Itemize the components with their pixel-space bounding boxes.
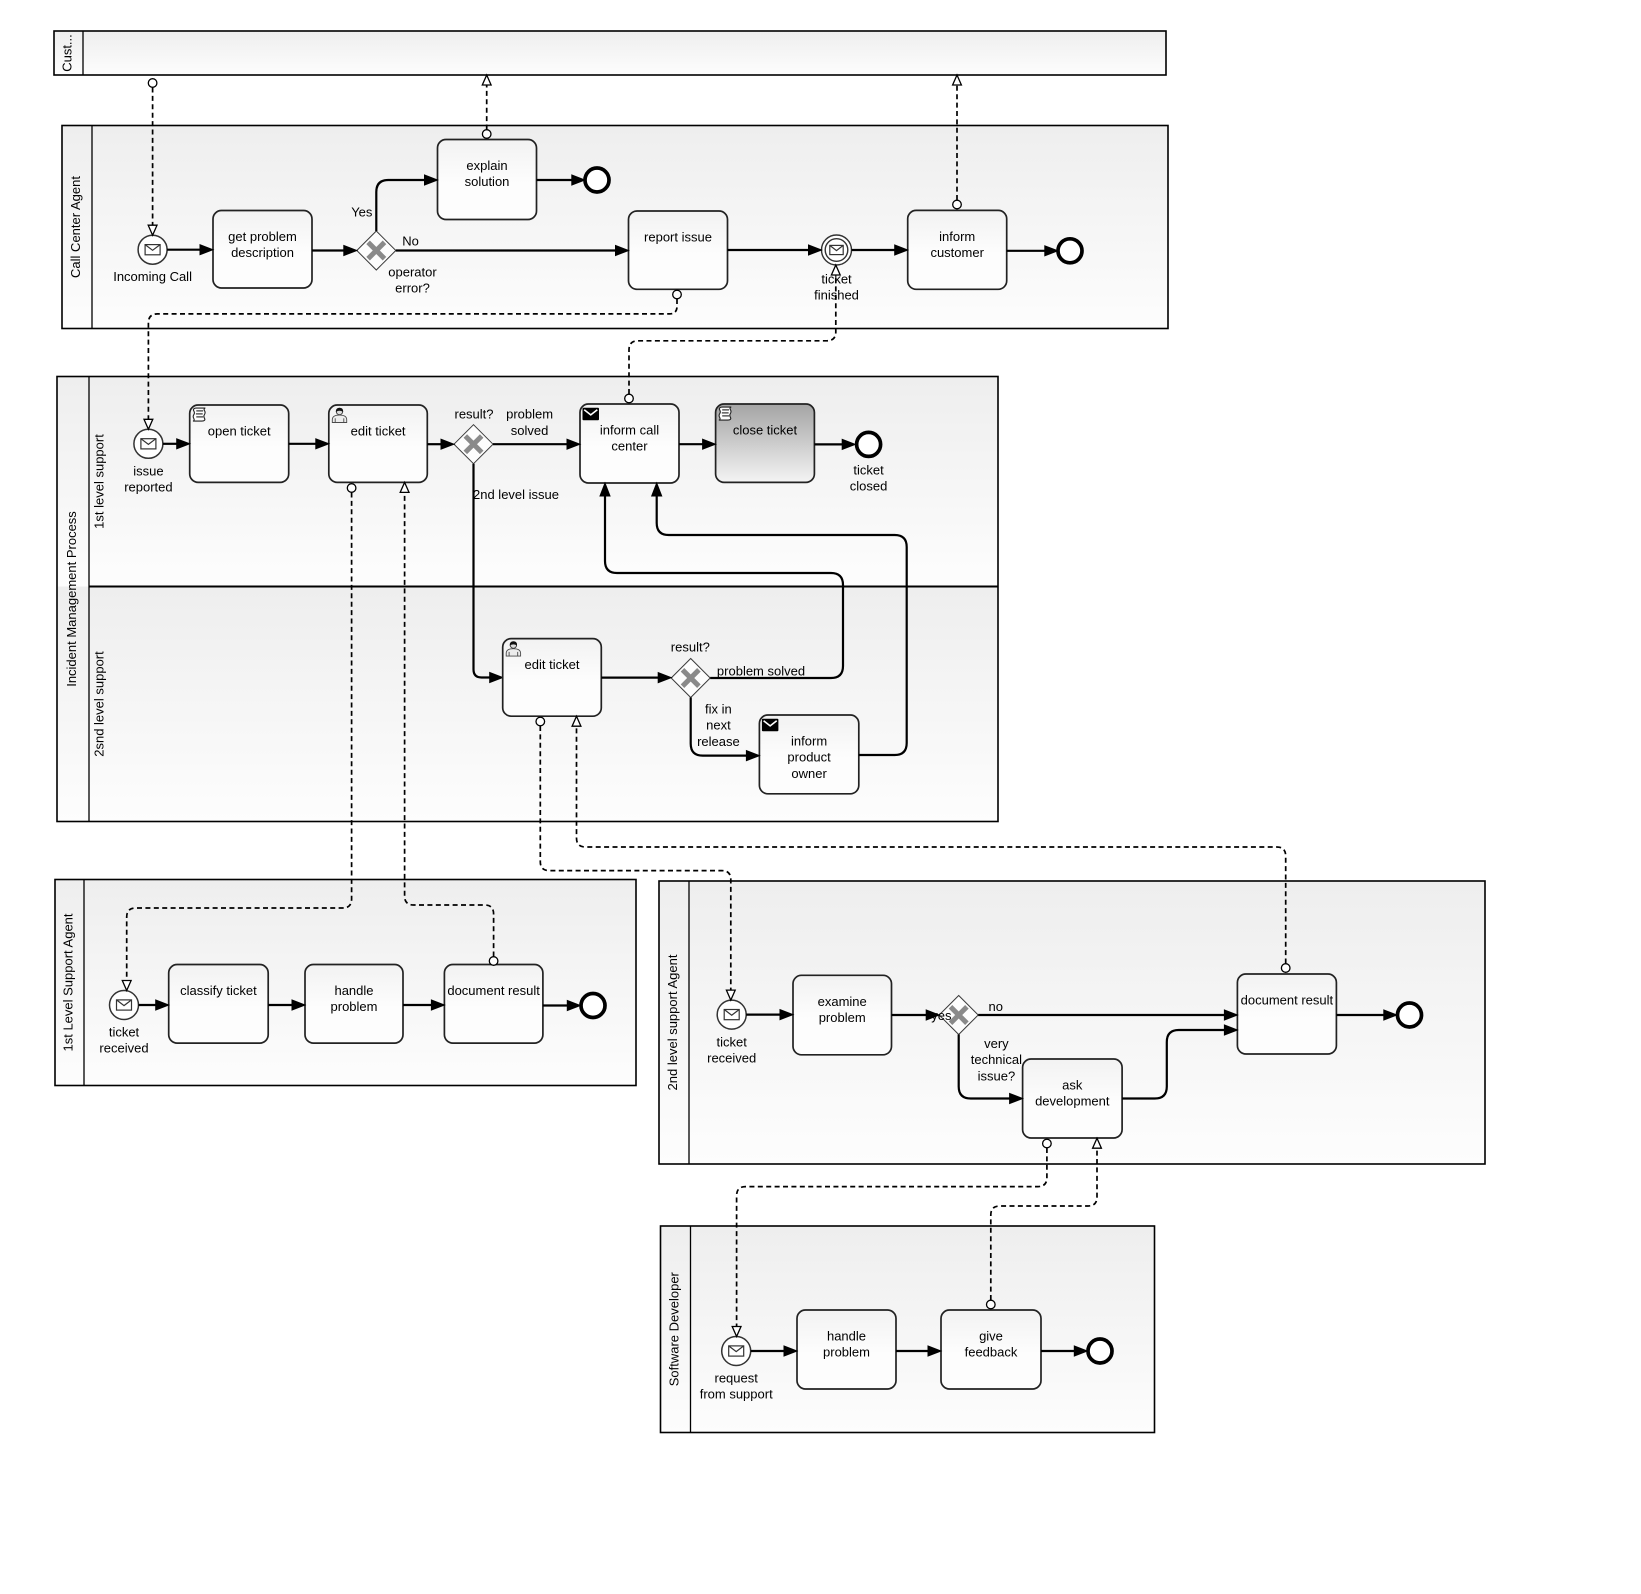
- svg-text:document result: document result: [447, 983, 540, 998]
- task handle problem developer: [797, 1310, 896, 1389]
- svg-text:Software Developer: Software Developer: [666, 1271, 681, 1386]
- start event request from support: [700, 1337, 773, 1402]
- svg-text:inform: inform: [791, 734, 827, 749]
- start event Incoming Call: [113, 235, 192, 284]
- pool Call Center Agent: [62, 126, 1168, 329]
- gateway operator error?: [357, 231, 396, 270]
- task ask development: [1023, 1059, 1123, 1138]
- flow edit ticket to gateway result?: [427, 439, 454, 449]
- end event 1st agent: [581, 994, 605, 1018]
- flow document result to end 1st agent: [543, 1001, 580, 1011]
- svg-text:result?: result?: [671, 640, 710, 655]
- svg-text:yes: yes: [931, 1008, 952, 1023]
- svg-text:ticket: ticket: [109, 1025, 140, 1040]
- task handle problem 1st agent: [305, 965, 403, 1044]
- message flow document result 2nd to edit ticket 2nd: [572, 716, 1290, 972]
- flow gateway Yes to explain solution: [376, 175, 437, 231]
- svg-text:error?: error?: [395, 281, 430, 296]
- svg-text:solution: solution: [465, 174, 510, 189]
- task classify ticket: [169, 965, 269, 1044]
- task close ticket: [716, 404, 815, 482]
- svg-text:classify ticket: classify ticket: [180, 983, 257, 998]
- svg-text:report issue: report issue: [644, 230, 712, 245]
- end event after inform customer: [1058, 239, 1082, 263]
- gateway result? 2nd level: [671, 659, 710, 698]
- label 2nd level issue: [473, 487, 559, 502]
- flow no to document result: [978, 1010, 1237, 1020]
- flow close ticket to ticket closed: [814, 439, 855, 449]
- svg-text:edit ticket: edit ticket: [351, 424, 406, 439]
- start event ticket received 2nd: [707, 1000, 756, 1066]
- flow give feedback to end: [1041, 1346, 1087, 1356]
- message flow explain solution to Customer: [482, 75, 491, 138]
- end event after explain solution: [585, 168, 609, 192]
- flow report issue to ticket finished: [728, 245, 822, 255]
- svg-text:ask: ask: [1062, 1078, 1083, 1093]
- svg-text:Call Center Agent: Call Center Agent: [68, 176, 83, 278]
- svg-text:technical: technical: [971, 1052, 1022, 1067]
- flow handle problem to document result: [403, 1000, 444, 1010]
- task edit ticket 2nd level: [503, 639, 602, 717]
- svg-text:development: development: [1035, 1094, 1110, 1109]
- flow Incoming Call to get problem description: [167, 245, 213, 255]
- svg-text:received: received: [707, 1051, 756, 1066]
- svg-text:open ticket: open ticket: [208, 424, 271, 439]
- task report issue: [629, 211, 728, 289]
- label result? 1st: [454, 407, 493, 422]
- svg-text:2snd level support: 2snd level support: [91, 651, 106, 757]
- svg-text:no: no: [989, 999, 1003, 1014]
- task inform call center: [580, 404, 679, 483]
- svg-text:1st Level Support Agent: 1st Level Support Agent: [60, 913, 75, 1051]
- flow document result to end 2nd agent: [1336, 1010, 1396, 1020]
- flow inform customer to end: [1007, 246, 1058, 256]
- svg-text:customer: customer: [930, 245, 984, 260]
- svg-text:product: product: [787, 750, 831, 765]
- svg-text:handle: handle: [334, 983, 373, 998]
- svg-text:issue: issue: [133, 464, 163, 479]
- intermediate message event ticket finished: [814, 235, 859, 303]
- label result? 2nd: [671, 640, 710, 655]
- start event ticket received 1st: [99, 991, 148, 1056]
- svg-text:next: next: [706, 718, 731, 733]
- svg-text:closed: closed: [850, 479, 888, 494]
- flow fix in next release to inform product owner: [691, 698, 760, 761]
- flow ask development to document result: [1122, 1025, 1237, 1099]
- label very technical issue?: [971, 1036, 1022, 1083]
- end event developer: [1088, 1339, 1112, 1363]
- task document result 1st agent: [444, 965, 543, 1044]
- flow inform call center to close ticket: [679, 439, 716, 449]
- svg-text:request: request: [715, 1371, 759, 1386]
- flow handle problem to give feedback: [896, 1346, 941, 1356]
- gateway very technical issue?: [939, 996, 978, 1035]
- task open ticket: [190, 405, 289, 482]
- svg-text:close ticket: close ticket: [733, 423, 798, 438]
- svg-text:document result: document result: [1241, 993, 1334, 1008]
- svg-text:reported: reported: [124, 480, 172, 495]
- flow explain solution to end: [537, 175, 585, 185]
- svg-text:operator: operator: [388, 265, 437, 280]
- pool 2nd level support Agent: [659, 881, 1485, 1164]
- svg-text:inform call: inform call: [600, 423, 659, 438]
- pool 1st Level Support Agent: [55, 880, 636, 1086]
- svg-text:problem: problem: [506, 407, 553, 422]
- svg-text:problem: problem: [331, 999, 378, 1014]
- svg-text:issue?: issue?: [978, 1068, 1016, 1083]
- flow request from support to handle problem: [751, 1346, 797, 1356]
- flow issue reported to open ticket: [163, 439, 190, 449]
- svg-text:release: release: [697, 734, 740, 749]
- flow ticket finished to inform customer: [852, 245, 908, 255]
- flow inform product owner to inform call center: [652, 483, 907, 755]
- label Yes: [351, 204, 373, 219]
- gateway result? 1st level: [454, 425, 493, 464]
- label operator error?: [388, 265, 437, 296]
- flow examine problem to gateway: [892, 1010, 940, 1020]
- start event issue reported: [124, 429, 172, 494]
- svg-text:Cust...: Cust...: [59, 34, 74, 72]
- message flow edit ticket 2nd to ticket received 2nd: [536, 717, 735, 1000]
- svg-text:get problem: get problem: [228, 229, 297, 244]
- svg-text:Incoming Call: Incoming Call: [113, 269, 192, 284]
- message flow edit ticket 1st to ticket received 1st: [122, 484, 356, 991]
- svg-text:1st level support: 1st level support: [91, 434, 106, 529]
- flow gateway 2nd level issue to edit ticket 2nd: [474, 464, 503, 683]
- message flow document result 1st to edit ticket 1st: [400, 482, 498, 965]
- message flow inform call center to ticket finished: [625, 265, 841, 403]
- label yes: [931, 1008, 952, 1023]
- end event 2nd agent: [1398, 1003, 1422, 1027]
- svg-text:No: No: [402, 233, 419, 248]
- svg-text:problem: problem: [819, 1010, 866, 1025]
- task inform customer: [908, 210, 1007, 289]
- pool Software Developer: [661, 1226, 1155, 1433]
- flow get problem description to gateway: [312, 246, 357, 256]
- task get problem description: [213, 211, 312, 289]
- svg-text:from support: from support: [700, 1387, 773, 1402]
- flow gateway problem solved to inform call center: [493, 439, 580, 449]
- task give feedback: [941, 1310, 1041, 1389]
- message flow report issue to issue reported: [144, 290, 681, 429]
- svg-text:owner: owner: [791, 766, 827, 781]
- svg-text:ticket: ticket: [717, 1035, 748, 1050]
- svg-text:fix in: fix in: [705, 702, 732, 717]
- message flow give feedback to ask development: [987, 1138, 1102, 1309]
- label fix in next release: [697, 702, 740, 749]
- message flow inform customer to Customer: [953, 75, 962, 209]
- task explain solution: [438, 140, 537, 220]
- svg-text:very: very: [984, 1036, 1009, 1051]
- label No: [402, 233, 419, 248]
- svg-text:received: received: [99, 1041, 148, 1056]
- svg-text:problem: problem: [823, 1345, 870, 1360]
- flow problem solved to inform call center: [600, 483, 843, 678]
- flow gateway No to report issue: [396, 246, 629, 256]
- svg-text:examine: examine: [818, 994, 867, 1009]
- task edit ticket 1st level: [329, 405, 428, 482]
- label no: [989, 999, 1003, 1014]
- svg-text:description: description: [231, 245, 294, 260]
- flow ticket received to classify ticket: [139, 1000, 169, 1010]
- task inform product owner: [759, 715, 858, 794]
- end event ticket closed: [850, 432, 888, 493]
- label problem solved 1st: [506, 407, 553, 438]
- task document result 2nd agent: [1237, 974, 1336, 1054]
- svg-text:inform: inform: [939, 229, 975, 244]
- svg-text:Yes: Yes: [351, 204, 373, 219]
- svg-text:result?: result?: [454, 407, 493, 422]
- flow edit ticket 2nd to gateway: [601, 673, 671, 683]
- svg-text:feedback: feedback: [965, 1345, 1018, 1360]
- svg-text:Incident Management Process: Incident Management Process: [64, 511, 79, 687]
- svg-text:2nd level issue: 2nd level issue: [473, 487, 559, 502]
- svg-text:give: give: [979, 1329, 1003, 1344]
- label problem solved 2nd: [717, 664, 805, 679]
- flow yes to ask development: [959, 1035, 1023, 1104]
- pool Customer (collapsed): [54, 31, 1166, 75]
- svg-text:center: center: [611, 439, 648, 454]
- svg-text:2nd level support Agent: 2nd level support Agent: [665, 954, 680, 1090]
- task examine problem: [793, 975, 892, 1055]
- svg-text:handle: handle: [827, 1329, 866, 1344]
- svg-text:ticket: ticket: [853, 463, 884, 478]
- pool Incident Management Process: [57, 377, 998, 822]
- message flow ask development to request from support: [732, 1139, 1051, 1336]
- flow ticket received to examine problem: [746, 1010, 793, 1020]
- svg-text:explain: explain: [466, 158, 507, 173]
- svg-text:problem solved: problem solved: [717, 664, 805, 679]
- svg-text:solved: solved: [511, 423, 549, 438]
- message flow Customer to Incoming Call: [148, 79, 157, 236]
- flow open ticket to edit ticket: [289, 439, 329, 449]
- flow classify ticket to handle problem: [268, 1000, 305, 1010]
- svg-text:edit ticket: edit ticket: [525, 657, 580, 672]
